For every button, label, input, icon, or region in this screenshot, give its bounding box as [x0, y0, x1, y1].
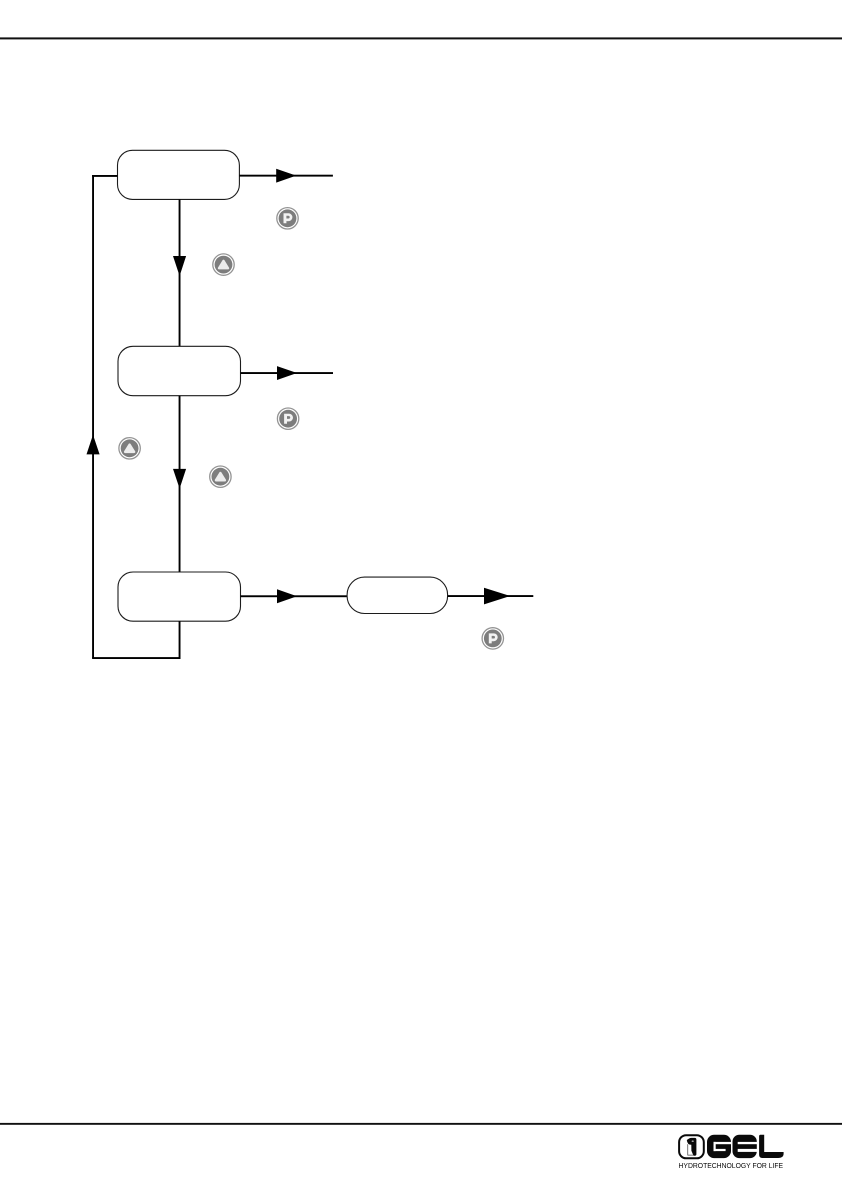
- logo GEL: rounded square with penguin: [679, 1135, 704, 1158]
- penguin: [687, 1138, 697, 1156]
- logo letter E: [733, 1135, 758, 1158]
- button P4: [482, 628, 503, 649]
- wire: bottom horizontal of feedback loop: [92, 657, 180, 659]
- wire: box2 right arrow line: [241, 372, 334, 374]
- wire: box3 bottom stub: [179, 621, 181, 659]
- wire: box4 right arrow line: [448, 595, 534, 597]
- box 3 (bottom-left rounded rectangle): [118, 572, 241, 621]
- wire: box3 to box4: [241, 595, 348, 597]
- logo letter G: [707, 1135, 732, 1158]
- svg-text:HYDROTECHNOLOGY FOR LIFE: HYDROTECHNOLOGY FOR LIFE: [679, 1161, 784, 1170]
- arrowhead up (left feedback line): [87, 435, 100, 455]
- wire: left feedback vertical line: [92, 175, 94, 658]
- button P2: [277, 408, 298, 429]
- button UP3 (next to second down arrow): [210, 466, 231, 487]
- wire: box2 bottom to box3 top: [179, 396, 181, 572]
- wire: box1 right arrow line: [239, 175, 333, 177]
- wire: stub into box1 left: [92, 175, 117, 177]
- button UP1 (next to first down arrow): [213, 254, 234, 275]
- arrowhead down (box2-box3): [173, 469, 186, 489]
- wire: box1 bottom to box2 top: [179, 199, 181, 346]
- arrowhead right (box4, larger): [484, 588, 510, 605]
- button UP2 (left feedback line): [119, 438, 140, 459]
- arrowhead right (box3-box4): [277, 589, 297, 603]
- box 1 (top rounded rectangle): [118, 150, 240, 199]
- logo letter L: [759, 1135, 784, 1158]
- footer rule: [0, 1123, 842, 1125]
- arrowhead right (box1): [276, 169, 296, 183]
- button P1: [277, 208, 298, 229]
- arrowhead down (box1-box2): [173, 256, 186, 276]
- arrowhead right (box2): [277, 366, 297, 380]
- header rule: [0, 37, 842, 39]
- box 2 (middle rounded rectangle): [118, 346, 241, 395]
- box 4 (small pill): [347, 577, 448, 613]
